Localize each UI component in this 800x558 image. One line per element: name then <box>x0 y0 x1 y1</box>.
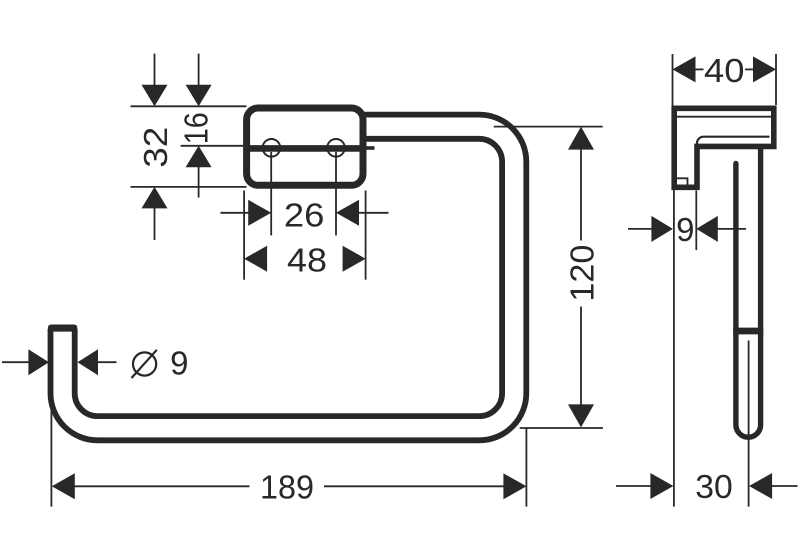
dim 26 left arrow <box>248 200 271 226</box>
svg-text:40: 40 <box>704 52 745 89</box>
dim 16 label <box>177 112 214 144</box>
dim 32 bottom tail <box>154 207 156 240</box>
dim 16 top arrow <box>186 85 212 107</box>
svg-text:189: 189 <box>260 468 314 505</box>
dim 9 side right extension <box>695 191 697 251</box>
dim 40 label <box>704 52 745 89</box>
dim 189 right extension <box>525 428 527 507</box>
dim 26 left tail <box>221 212 250 214</box>
dim 120 label <box>564 245 601 302</box>
dim 120 bottom extension <box>520 427 603 429</box>
extension line top of plate y106 <box>131 105 247 107</box>
dim 40 line right <box>745 68 755 70</box>
towel ring tube (front view) outer outline <box>48 127 514 429</box>
dim 9 side label <box>676 211 694 248</box>
dim diameter 9 left tail <box>2 361 30 363</box>
dim diameter 9 right arrow <box>78 349 99 375</box>
dim diameter 9 right tail <box>97 361 117 363</box>
dim 9 side right tail <box>717 228 746 230</box>
dim 26 label <box>284 196 325 233</box>
dim 30 right tail <box>771 485 797 487</box>
svg-text:26: 26 <box>284 196 325 233</box>
extension line bottom of plate y187 <box>131 186 247 188</box>
dim 189 right arrow <box>503 473 526 499</box>
side view plate seam thin line <box>677 116 771 118</box>
svg-text:16: 16 <box>177 112 214 144</box>
dim 16 bottom arrow <box>186 146 212 168</box>
dim 189 line left <box>74 485 250 487</box>
dim 40 left extension <box>672 54 674 106</box>
dim 48 right arrow <box>343 246 366 272</box>
dim 26 right tail <box>358 212 389 214</box>
dim 120 top arrow <box>568 127 594 150</box>
side view ring bar <box>736 149 761 437</box>
side view foot notch line <box>677 178 688 184</box>
side view tube center line / 30 right extension <box>748 341 750 507</box>
extension line seam level y146 <box>181 145 245 147</box>
svg-text:120: 120 <box>564 245 601 302</box>
svg-text:30: 30 <box>695 468 733 505</box>
dim 30 label <box>695 468 733 505</box>
dim 16 bottom tail <box>198 166 200 198</box>
dim 26 right extension <box>335 152 337 235</box>
dim 48 left arrow <box>244 246 267 272</box>
dim 48 label <box>287 241 327 278</box>
plate seam line (front view) <box>246 145 363 152</box>
dim 189 left arrow <box>52 473 75 499</box>
dim 48 left extension <box>243 191 245 280</box>
dim 26 left extension <box>270 152 272 235</box>
dim 189 left extension <box>50 332 52 507</box>
dim 9 side left tail <box>628 228 653 230</box>
dim 30 left arrow <box>650 473 673 499</box>
dim 32 bottom arrow <box>142 187 168 209</box>
dim 9 side left arrow <box>651 216 673 242</box>
wall plate (front view) <box>247 108 363 185</box>
svg-text:9: 9 <box>676 211 694 248</box>
dim 30 left tail <box>616 485 651 487</box>
dim 40 right arrow <box>753 56 776 82</box>
dim 32 top arrow <box>142 85 168 107</box>
dim 120 top extension <box>494 126 603 128</box>
svg-text:32: 32 <box>137 127 174 168</box>
dim 120 bottom arrow <box>568 404 594 427</box>
svg-text:48: 48 <box>287 241 327 278</box>
dim 40 right extension <box>775 54 777 105</box>
screw hole right <box>327 139 345 157</box>
diameter symbol <box>132 350 157 378</box>
dim 189 line right <box>324 485 504 487</box>
dim 40 line left <box>695 68 704 70</box>
dim 120 line upper <box>580 149 582 241</box>
dim 16 top tail <box>198 54 200 86</box>
dim 26 right arrow <box>336 200 359 226</box>
side view hook cap band <box>733 328 763 335</box>
dim 40 left arrow <box>673 56 696 82</box>
screw hole left <box>263 139 281 157</box>
dim 120 line lower <box>580 307 582 405</box>
towel ring tube (front view) inner white <box>63 127 515 429</box>
side view wall plate profile <box>674 108 774 187</box>
dim 32 label <box>137 127 174 168</box>
dim 9 side left extension <box>673 190 675 507</box>
dim diameter 9 label <box>170 345 188 382</box>
dim diameter 9 left arrow <box>28 349 49 375</box>
side view tube arm top thin line with corner <box>697 137 770 144</box>
dim 32 top tail <box>154 54 156 86</box>
dim 48 right extension <box>365 191 367 280</box>
dim 9 side right arrow <box>696 216 718 242</box>
svg-text:9: 9 <box>170 345 188 382</box>
dim 189 label <box>260 468 314 505</box>
dim 30 right arrow <box>749 473 772 499</box>
seam stub right of plate <box>365 146 375 150</box>
